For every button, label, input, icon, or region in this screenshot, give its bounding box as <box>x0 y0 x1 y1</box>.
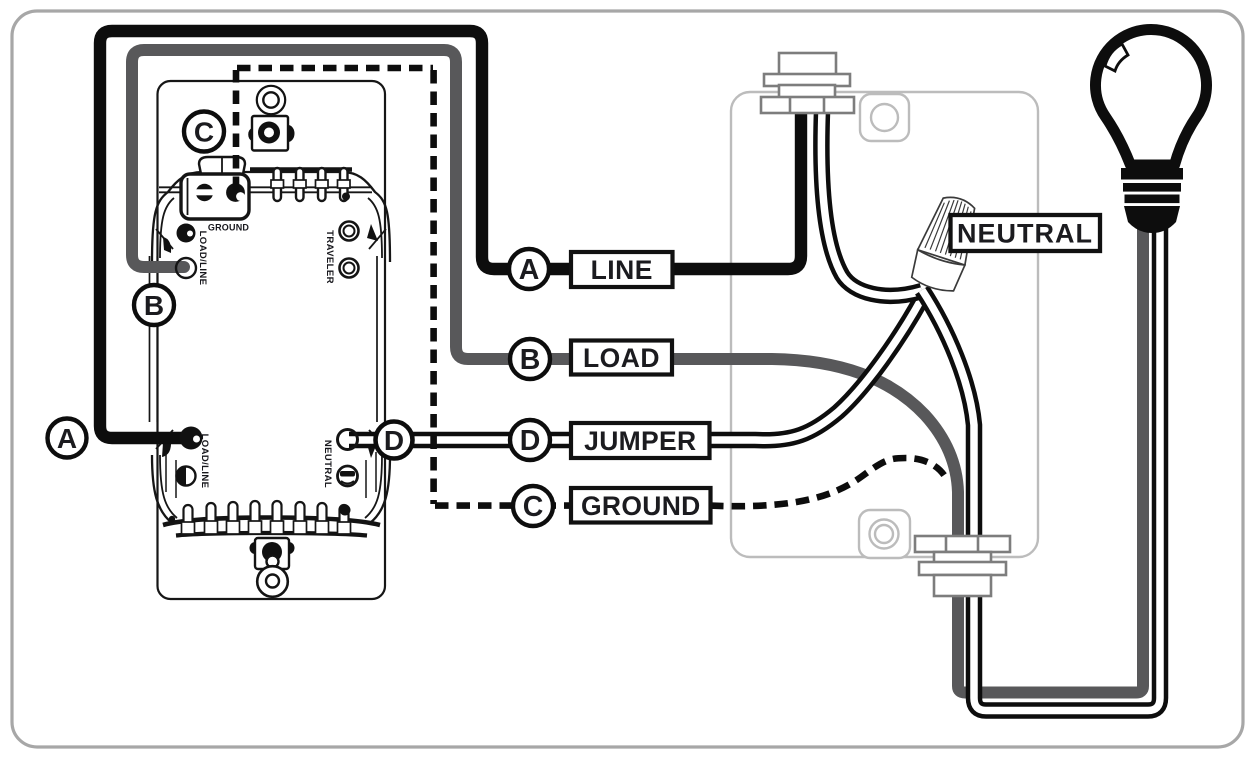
svg-text:GROUND: GROUND <box>208 223 249 233</box>
wire GROUND dashed <box>236 68 947 506</box>
label box LINE <box>571 252 673 287</box>
wing upper-right <box>367 224 386 249</box>
switch terminal neutral <box>338 430 358 450</box>
label box JUMPER <box>571 423 710 458</box>
wire LOAD bottom loop (gray) <box>958 226 1143 693</box>
wire neutral nut-to-bulb white <box>922 226 1160 711</box>
wire nut NEUTRAL <box>908 191 984 295</box>
ground terminal cap <box>199 157 245 174</box>
bulb highlight <box>1105 44 1128 71</box>
yoke top arch <box>152 172 390 262</box>
junction box screw boss top-right <box>860 94 909 141</box>
svg-text:C: C <box>194 117 214 148</box>
label circle D <box>510 420 550 460</box>
wing lower-left <box>156 430 173 457</box>
switch terminal traveler top <box>340 222 359 241</box>
svg-text:LINE: LINE <box>591 255 653 285</box>
label circle A at switch <box>48 419 87 458</box>
label circle D at switch <box>376 422 413 459</box>
ground screw left <box>196 184 213 201</box>
yoke top band thick edge <box>250 167 352 172</box>
bottom mounting hole ring <box>257 566 288 597</box>
cable clamp bottom <box>915 536 1010 596</box>
svg-text:JUMPER: JUMPER <box>584 426 696 456</box>
label box LOAD <box>571 341 672 375</box>
bottom mounting bracket <box>250 538 295 569</box>
svg-text:NEUTRAL: NEUTRAL <box>957 219 1093 249</box>
junction box screw boss bottom-left <box>859 510 910 558</box>
yoke top fins <box>271 168 350 201</box>
label circle C <box>513 486 553 526</box>
svg-text:B: B <box>520 344 541 376</box>
wire LINE (black) <box>100 31 801 438</box>
ground terminal box <box>181 174 249 219</box>
bulb base <box>1124 206 1180 233</box>
junction box <box>731 92 1038 557</box>
svg-text:D: D <box>384 425 404 456</box>
svg-text:B: B <box>144 290 164 321</box>
switch terminal lower-left black <box>180 427 203 450</box>
label circle B at switch <box>134 285 174 325</box>
bulb screw threads <box>1121 168 1183 180</box>
bulb globe outline <box>1096 30 1207 165</box>
label box NEUTRAL <box>951 215 1101 251</box>
switch terminal upper-left dark <box>177 224 196 243</box>
svg-text:D: D <box>520 425 541 457</box>
switch terminal lower-left half <box>177 467 196 486</box>
switch top mounting hole ring <box>257 86 285 114</box>
label circle C at switch <box>184 112 224 152</box>
label circle B <box>510 339 550 379</box>
wing upper-left <box>156 229 173 253</box>
pocket lines lower-right <box>366 452 376 498</box>
switch device body <box>158 81 386 599</box>
switch top mounting bracket <box>248 116 294 151</box>
svg-text:NEUTRAL: NEUTRAL <box>322 440 333 488</box>
wing lower-right <box>367 430 386 458</box>
label box GROUND <box>571 488 711 523</box>
svg-text:GROUND: GROUND <box>581 491 701 521</box>
switch terminal neutral lower screw <box>338 466 358 486</box>
svg-text:TRAVELER: TRAVELER <box>324 230 335 284</box>
svg-text:C: C <box>523 491 544 523</box>
cable clamp top <box>761 53 854 113</box>
switch side rails <box>150 256 386 422</box>
label circle A <box>509 249 549 289</box>
wire JUMPER white outline <box>349 298 922 440</box>
svg-text:A: A <box>519 254 540 286</box>
svg-text:LOAD/LINE: LOAD/LINE <box>197 231 208 286</box>
bottom arch curves <box>152 455 390 523</box>
wire LOAD (gray) <box>132 50 958 600</box>
ground screw right <box>226 183 245 202</box>
switch terminal labels <box>197 223 335 489</box>
light bulb <box>1096 30 1207 233</box>
svg-text:A: A <box>57 423 77 454</box>
bottom fins <box>182 501 351 534</box>
svg-text:LOAD: LOAD <box>583 343 660 373</box>
wire neutral clamp-to-nut white <box>821 112 922 296</box>
pocket lines lower-left <box>166 452 176 498</box>
switch terminal traveler bottom <box>340 259 359 278</box>
bottom plate thick edges <box>163 518 380 536</box>
switch terminal upper-left open (gray wire) <box>176 258 196 278</box>
